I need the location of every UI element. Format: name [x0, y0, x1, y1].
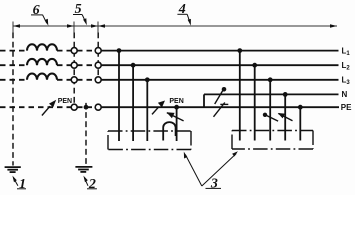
svg-text:PEN: PEN	[58, 98, 72, 105]
svg-text:2: 2	[88, 177, 96, 192]
svg-text:N: N	[342, 90, 348, 99]
svg-text:4: 4	[178, 2, 186, 17]
svg-text:L1: L1	[342, 46, 351, 57]
svg-text:3: 3	[210, 176, 218, 191]
svg-text:L3: L3	[342, 76, 351, 87]
svg-text:1: 1	[19, 177, 26, 192]
svg-text:L2: L2	[342, 61, 351, 72]
svg-text:PE: PE	[341, 103, 352, 112]
svg-text:PEN: PEN	[169, 98, 183, 105]
svg-text:6: 6	[33, 3, 40, 18]
